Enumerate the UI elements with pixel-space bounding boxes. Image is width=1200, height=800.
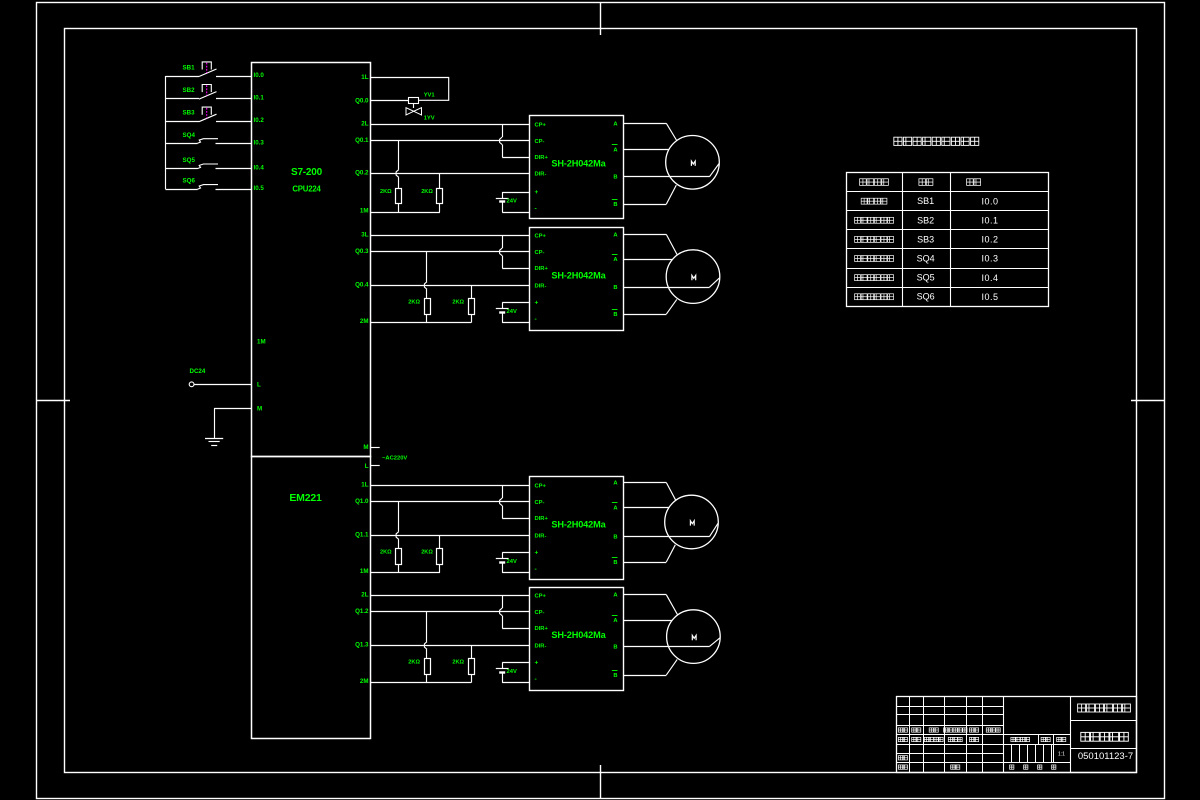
svg-text:CP-: CP- bbox=[535, 610, 545, 616]
svg-text:+: + bbox=[535, 189, 539, 196]
svg-text:24V: 24V bbox=[507, 559, 517, 565]
svg-text:Q1.0: Q1.0 bbox=[355, 498, 369, 505]
svg-text:+: + bbox=[535, 550, 539, 557]
svg-text:CP+: CP+ bbox=[535, 593, 547, 599]
svg-text:1:1: 1:1 bbox=[1058, 752, 1065, 758]
svg-text:DIR-: DIR- bbox=[535, 284, 547, 290]
svg-text:B: B bbox=[613, 285, 617, 291]
svg-text:Q0.4: Q0.4 bbox=[355, 282, 369, 289]
svg-text:1M: 1M bbox=[360, 568, 369, 575]
svg-text:2KΩ: 2KΩ bbox=[380, 189, 392, 195]
svg-text:2KΩ: 2KΩ bbox=[380, 550, 392, 556]
svg-text:L: L bbox=[257, 381, 261, 388]
svg-text:Q1.3: Q1.3 bbox=[355, 642, 369, 649]
svg-text:1L: 1L bbox=[361, 481, 368, 488]
svg-text:~AC220V: ~AC220V bbox=[382, 456, 407, 462]
svg-text:EM221: EM221 bbox=[289, 492, 322, 504]
svg-text:I0.0: I0.0 bbox=[981, 196, 998, 206]
svg-text:SB2: SB2 bbox=[183, 87, 196, 94]
svg-text:1M: 1M bbox=[257, 339, 266, 346]
svg-text:Q1.1: Q1.1 bbox=[355, 532, 369, 539]
svg-text:CP-: CP- bbox=[535, 250, 545, 256]
svg-text:CP-: CP- bbox=[535, 500, 545, 506]
svg-text:2M: 2M bbox=[360, 678, 369, 685]
svg-text:CP-: CP- bbox=[535, 139, 545, 145]
svg-text:I0.2: I0.2 bbox=[981, 235, 998, 245]
svg-text:2KΩ: 2KΩ bbox=[421, 189, 433, 195]
svg-text:SH-2H042Ma: SH-2H042Ma bbox=[551, 630, 606, 640]
svg-text:24V: 24V bbox=[507, 669, 517, 675]
svg-text:SQ5: SQ5 bbox=[183, 157, 196, 164]
svg-text:CP+: CP+ bbox=[535, 483, 547, 489]
svg-text:2KΩ: 2KΩ bbox=[452, 660, 464, 666]
svg-text:3L: 3L bbox=[361, 231, 368, 238]
svg-text:I0.1: I0.1 bbox=[981, 216, 998, 226]
svg-text:I0.0: I0.0 bbox=[254, 72, 265, 79]
svg-text:M: M bbox=[257, 406, 262, 413]
svg-text:I0.4: I0.4 bbox=[981, 273, 998, 283]
svg-text:+: + bbox=[535, 660, 539, 667]
svg-text:DIR+: DIR+ bbox=[535, 266, 549, 272]
svg-text:2L: 2L bbox=[361, 120, 368, 127]
svg-text:SQ4: SQ4 bbox=[183, 132, 196, 139]
svg-text:I0.4: I0.4 bbox=[254, 165, 265, 172]
svg-text:I0.5: I0.5 bbox=[254, 185, 265, 192]
svg-text:YV1: YV1 bbox=[424, 92, 436, 98]
svg-text:1L: 1L bbox=[361, 74, 368, 81]
svg-text:SB1: SB1 bbox=[183, 65, 196, 72]
svg-text:CP+: CP+ bbox=[535, 122, 547, 128]
svg-text:2KΩ: 2KΩ bbox=[408, 660, 420, 666]
svg-text:Q0.1: Q0.1 bbox=[355, 137, 369, 144]
svg-text:2L: 2L bbox=[361, 591, 368, 598]
svg-text:SQ6: SQ6 bbox=[183, 178, 196, 185]
svg-text:1M: 1M bbox=[360, 208, 369, 215]
svg-text:SH-2H042Ma: SH-2H042Ma bbox=[551, 158, 606, 168]
svg-text:24V: 24V bbox=[507, 199, 517, 205]
svg-text:B: B bbox=[613, 202, 617, 208]
svg-text:B: B bbox=[613, 644, 617, 650]
svg-text:24V: 24V bbox=[507, 309, 517, 315]
svg-text:B: B bbox=[613, 175, 617, 181]
svg-text:B: B bbox=[613, 560, 617, 566]
svg-text:SB2: SB2 bbox=[917, 215, 934, 225]
svg-text:DIR+: DIR+ bbox=[535, 516, 549, 522]
svg-text:2KΩ: 2KΩ bbox=[408, 300, 420, 306]
svg-text:050101123-7: 050101123-7 bbox=[1078, 751, 1133, 762]
svg-text:SB3: SB3 bbox=[917, 234, 934, 244]
svg-text:M: M bbox=[363, 444, 368, 451]
svg-text:Q0.2: Q0.2 bbox=[355, 170, 369, 177]
svg-text:I0.5: I0.5 bbox=[981, 292, 998, 302]
svg-text:2M: 2M bbox=[360, 318, 369, 325]
svg-text:SQ5: SQ5 bbox=[917, 273, 935, 283]
svg-text:DIR-: DIR- bbox=[535, 644, 547, 650]
svg-text:SQ4: SQ4 bbox=[917, 254, 935, 264]
svg-text:B: B bbox=[613, 535, 617, 541]
svg-text:SB1: SB1 bbox=[917, 196, 934, 206]
svg-text:DIR-: DIR- bbox=[535, 172, 547, 178]
svg-text:I0.3: I0.3 bbox=[981, 254, 998, 264]
svg-text:CP+: CP+ bbox=[535, 233, 547, 239]
svg-text:DIR+: DIR+ bbox=[535, 626, 549, 632]
svg-text:1YV: 1YV bbox=[424, 115, 435, 121]
svg-text:L: L bbox=[365, 463, 369, 470]
svg-text:SH-2H042Ma: SH-2H042Ma bbox=[551, 270, 606, 280]
svg-text:2KΩ: 2KΩ bbox=[452, 300, 464, 306]
svg-text:+: + bbox=[535, 300, 539, 307]
svg-text:-: - bbox=[535, 566, 537, 573]
svg-text:Q0.0: Q0.0 bbox=[355, 98, 369, 105]
svg-text:-: - bbox=[535, 676, 537, 683]
svg-text:DIR-: DIR- bbox=[535, 534, 547, 540]
svg-text:SB3: SB3 bbox=[183, 110, 196, 117]
svg-text:DC24: DC24 bbox=[190, 368, 206, 375]
svg-text:I0.2: I0.2 bbox=[254, 117, 265, 124]
svg-text:B: B bbox=[613, 673, 617, 679]
svg-text:DIR+: DIR+ bbox=[535, 155, 549, 161]
svg-text:S7-200: S7-200 bbox=[291, 167, 323, 178]
svg-text:B: B bbox=[613, 312, 617, 318]
svg-text:SH-2H042Ma: SH-2H042Ma bbox=[551, 519, 606, 529]
svg-text:2KΩ: 2KΩ bbox=[421, 550, 433, 556]
svg-text:Q0.3: Q0.3 bbox=[355, 248, 369, 255]
svg-text:I0.3: I0.3 bbox=[254, 139, 265, 146]
svg-text:-: - bbox=[535, 206, 537, 213]
svg-text:SQ6: SQ6 bbox=[917, 292, 935, 302]
svg-text:CPU224: CPU224 bbox=[292, 184, 321, 193]
svg-text:Q1.2: Q1.2 bbox=[355, 608, 369, 615]
svg-text:-: - bbox=[535, 316, 537, 323]
svg-text:I0.1: I0.1 bbox=[254, 95, 265, 102]
